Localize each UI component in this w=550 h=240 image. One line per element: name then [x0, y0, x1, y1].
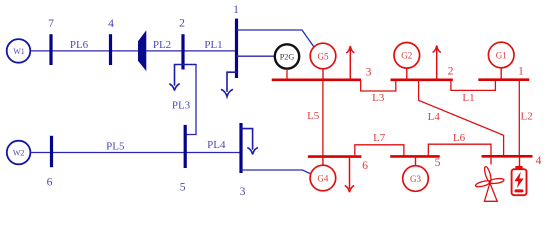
- generator G4: [310, 157, 336, 191]
- svg-text:PL3: PL3: [172, 99, 191, 111]
- load arrow down at bus 6: [345, 157, 354, 192]
- load at node 3 (bracket + down arrow): [241, 129, 257, 155]
- wire: pipeline W2 to node 3: [30, 152, 241, 154]
- svg-text:PL2: PL2: [153, 39, 171, 51]
- bus 5 (power): [390, 155, 440, 158]
- svg-text:6: 6: [362, 159, 368, 172]
- line L6: [428, 144, 491, 156]
- node 3 bus: [239, 123, 242, 173]
- pipeline PL3: [187, 65, 197, 135]
- bus 2 (power): [391, 79, 453, 82]
- wire: node 1 to P2G: [237, 55, 275, 57]
- svg-text:6: 6: [47, 176, 53, 189]
- svg-text:G3: G3: [410, 174, 421, 184]
- node 6 bus: [50, 136, 53, 167]
- node 4 bus: [109, 34, 112, 65]
- wire: node 1 to G5: [237, 30, 314, 47]
- line L3: [361, 80, 396, 91]
- load arrow up at bus 2: [433, 46, 441, 80]
- generator G5: [310, 43, 336, 80]
- line L2: [518, 80, 520, 157]
- svg-text:5: 5: [435, 156, 441, 169]
- svg-text:G2: G2: [401, 51, 412, 61]
- svg-text:L1: L1: [462, 92, 474, 104]
- node 1 bus: [235, 19, 238, 78]
- svg-text:W2: W2: [13, 149, 25, 158]
- line L5: [322, 80, 324, 157]
- gas source W2: [7, 141, 31, 165]
- node 2 bus: [181, 34, 184, 69]
- svg-text:3: 3: [366, 65, 372, 78]
- load at node 2 (bracket + down arrow): [170, 65, 196, 91]
- svg-text:G4: G4: [317, 173, 328, 183]
- svg-text:2: 2: [448, 65, 454, 78]
- node 7 bus: [49, 34, 52, 65]
- svg-text:1: 1: [233, 3, 239, 16]
- generator G2: [394, 43, 420, 80]
- svg-text:3: 3: [240, 185, 246, 198]
- svg-text:PL4: PL4: [207, 139, 226, 151]
- svg-text:L3: L3: [372, 92, 385, 104]
- generator G3: [403, 156, 429, 191]
- svg-text:P2G: P2G: [280, 52, 295, 61]
- wind turbine: [475, 156, 504, 201]
- wire: node 3 to G4: [241, 170, 311, 174]
- svg-text:G5: G5: [318, 51, 329, 61]
- compressor: [138, 31, 146, 70]
- svg-text:7: 7: [48, 17, 54, 30]
- bus 1 (power): [478, 78, 529, 81]
- wire: main pipeline W1 to node 1: [31, 50, 237, 52]
- load arrow up at bus 3: [346, 46, 354, 80]
- line L7: [355, 145, 404, 157]
- svg-text:PL5: PL5: [106, 140, 125, 152]
- gas source W1: [7, 39, 31, 63]
- wire: P2G to red bus 3: [286, 69, 288, 80]
- bus 3 (power): [272, 79, 361, 82]
- generator G1: [488, 42, 514, 79]
- svg-text:1: 1: [518, 65, 524, 78]
- load at node 1 (bracket + down arrow): [222, 72, 237, 96]
- svg-text:PL1: PL1: [204, 39, 222, 51]
- battery storage: [512, 156, 527, 195]
- svg-text:L2: L2: [520, 110, 532, 122]
- line L4: [419, 80, 504, 157]
- P2G unit: [275, 44, 299, 68]
- svg-text:4: 4: [108, 17, 114, 30]
- svg-text:PL6: PL6: [70, 39, 89, 51]
- svg-text:5: 5: [180, 181, 186, 194]
- line L1: [451, 80, 496, 91]
- bus 6 (power): [308, 155, 362, 158]
- svg-text:L4: L4: [428, 111, 441, 123]
- bus 4 (power): [482, 155, 533, 158]
- svg-text:L5: L5: [307, 110, 320, 122]
- svg-text:L6: L6: [453, 132, 466, 144]
- svg-text:W1: W1: [13, 47, 25, 56]
- node 5 bus: [184, 125, 187, 168]
- svg-text:2: 2: [179, 16, 185, 29]
- svg-text:L7: L7: [373, 132, 386, 144]
- svg-text:G1: G1: [496, 50, 507, 60]
- svg-text:4: 4: [536, 154, 542, 167]
